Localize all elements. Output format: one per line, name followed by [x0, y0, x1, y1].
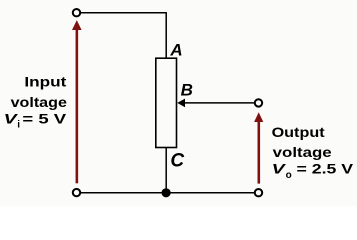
wire: wiper to output top terminal: [183, 102, 254, 104]
svg-text:A: A: [169, 40, 182, 59]
potentiometer body: [156, 58, 177, 147]
svg-text:i: i: [17, 120, 20, 131]
terminal: output top: [255, 99, 262, 106]
terminal: output bottom: [255, 189, 262, 196]
terminal: input bottom: [73, 189, 80, 196]
terminal: input top: [73, 9, 80, 16]
potentiometer wiper arrowhead: [177, 99, 185, 108]
svg-text:voltage: voltage: [273, 144, 332, 160]
input voltage arrow (dark red, pointing up): [72, 20, 82, 183]
svg-text:= 5 V: = 5 V: [22, 110, 67, 126]
svg-text:V: V: [272, 160, 287, 176]
svg-text:Input: Input: [24, 74, 66, 90]
wire: bottom 0V rail from input bottom terminal to output bottom terminal: [80, 192, 254, 194]
svg-text:C: C: [170, 150, 184, 171]
svg-text:B: B: [181, 81, 193, 100]
svg-text:= 2.5 V: = 2.5 V: [297, 160, 354, 176]
svg-text:voltage: voltage: [11, 94, 68, 110]
junction: node C on 0V rail: [162, 188, 171, 197]
output voltage arrow (dark red, pointing up): [254, 112, 263, 183]
wire: node C to bottom-rail junction: [165, 148, 167, 193]
svg-text:Output: Output: [272, 124, 325, 140]
wire: top rail from input top terminal down to node A: [80, 13, 166, 58]
svg-text:o: o: [286, 170, 292, 181]
